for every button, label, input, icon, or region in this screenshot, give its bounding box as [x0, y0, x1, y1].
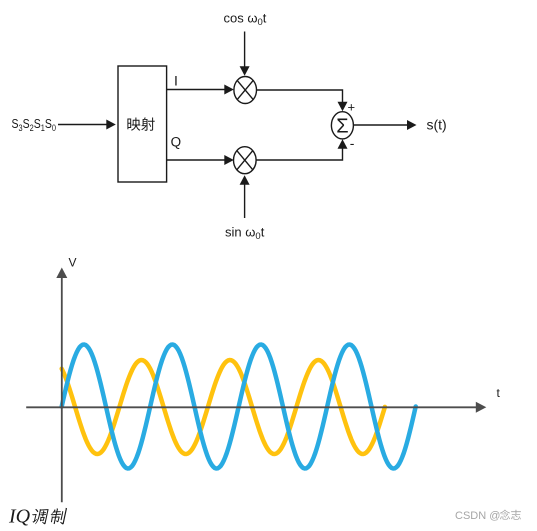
caption 调制 (kai italic) [30, 508, 67, 525]
svg-text:V: V [69, 256, 77, 270]
wire cos carrier down into multiplier [244, 32, 246, 68]
wire M1 output to summer [257, 90, 343, 103]
wire sin carrier up into multiplier [244, 184, 246, 218]
svg-text:I: I [174, 72, 178, 88]
wire summer output to s(t) [353, 124, 407, 126]
mapper box U1 [118, 66, 167, 182]
svg-text:IQ: IQ [8, 506, 31, 528]
summer U2 sigma [331, 112, 353, 139]
wire Q from mapper to multiplier [167, 159, 225, 161]
t axis [26, 406, 476, 408]
svg-text:CSDN @: CSDN @ [455, 510, 500, 522]
wire input arrow into mapper [58, 124, 107, 126]
svg-text:Q: Q [171, 134, 182, 149]
multiplier M2 (Q mixer) [234, 147, 257, 174]
svg-text:+: + [348, 100, 356, 115]
multiplier M1 (I mixer) [234, 77, 257, 104]
wire M2 output to summer [256, 148, 342, 160]
svg-text:s(t): s(t) [427, 117, 447, 133]
svg-text:S3S2S1S0: S3S2S1S0 [12, 116, 57, 133]
V axis [61, 278, 63, 503]
wire I from mapper to multiplier [167, 89, 225, 91]
svg-text:-: - [350, 135, 355, 151]
mapper label 映射 [127, 117, 154, 130]
blue waveform I(t) [62, 345, 416, 469]
yellow waveform Q(t) [62, 360, 385, 454]
svg-text:Σ: Σ [336, 115, 348, 137]
